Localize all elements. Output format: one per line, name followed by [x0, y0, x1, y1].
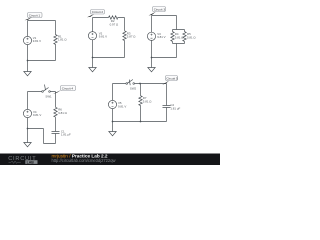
svg-text:1.81 μF: 1.81 μF	[170, 106, 180, 110]
svg-text:5.81 Ω: 5.81 Ω	[187, 35, 196, 39]
svg-text:9.81 V: 9.81 V	[118, 104, 126, 108]
svg-text:LAB: LAB	[27, 160, 35, 164]
svg-text:Circuit 5: Circuit 5	[166, 76, 178, 80]
svg-text:Circuit 1: Circuit 1	[29, 13, 41, 17]
svg-text:5.81 Ω: 5.81 Ω	[143, 99, 152, 103]
svg-text:Circuit 3: Circuit 3	[154, 7, 166, 11]
svg-text:Circuit 2: Circuit 2	[92, 10, 104, 14]
svg-text:1.81 Ω: 1.81 Ω	[58, 38, 67, 42]
svg-text:9.81 V: 9.81 V	[33, 39, 41, 43]
svg-text:5.81 Ω: 5.81 Ω	[175, 35, 184, 39]
svg-text:5.87 Ω: 5.87 Ω	[127, 35, 136, 39]
svg-text:Circuit 4: Circuit 4	[62, 86, 74, 90]
svg-text:9.81 Ω: 9.81 Ω	[58, 111, 67, 115]
svg-text:SW2: SW2	[130, 86, 137, 90]
svg-text:http://circuitlab.com/cme3dj27: http://circuitlab.com/cme3dj2722qw	[52, 158, 116, 163]
svg-text:9.81 V: 9.81 V	[33, 113, 41, 117]
svg-text:SW1: SW1	[45, 95, 52, 99]
svg-text:9.81 V: 9.81 V	[157, 35, 165, 39]
svg-text:0.97 Ω: 0.97 Ω	[110, 22, 119, 26]
svg-text:9.81 V: 9.81 V	[99, 35, 107, 39]
svg-text:1.81 μF: 1.81 μF	[61, 133, 71, 137]
